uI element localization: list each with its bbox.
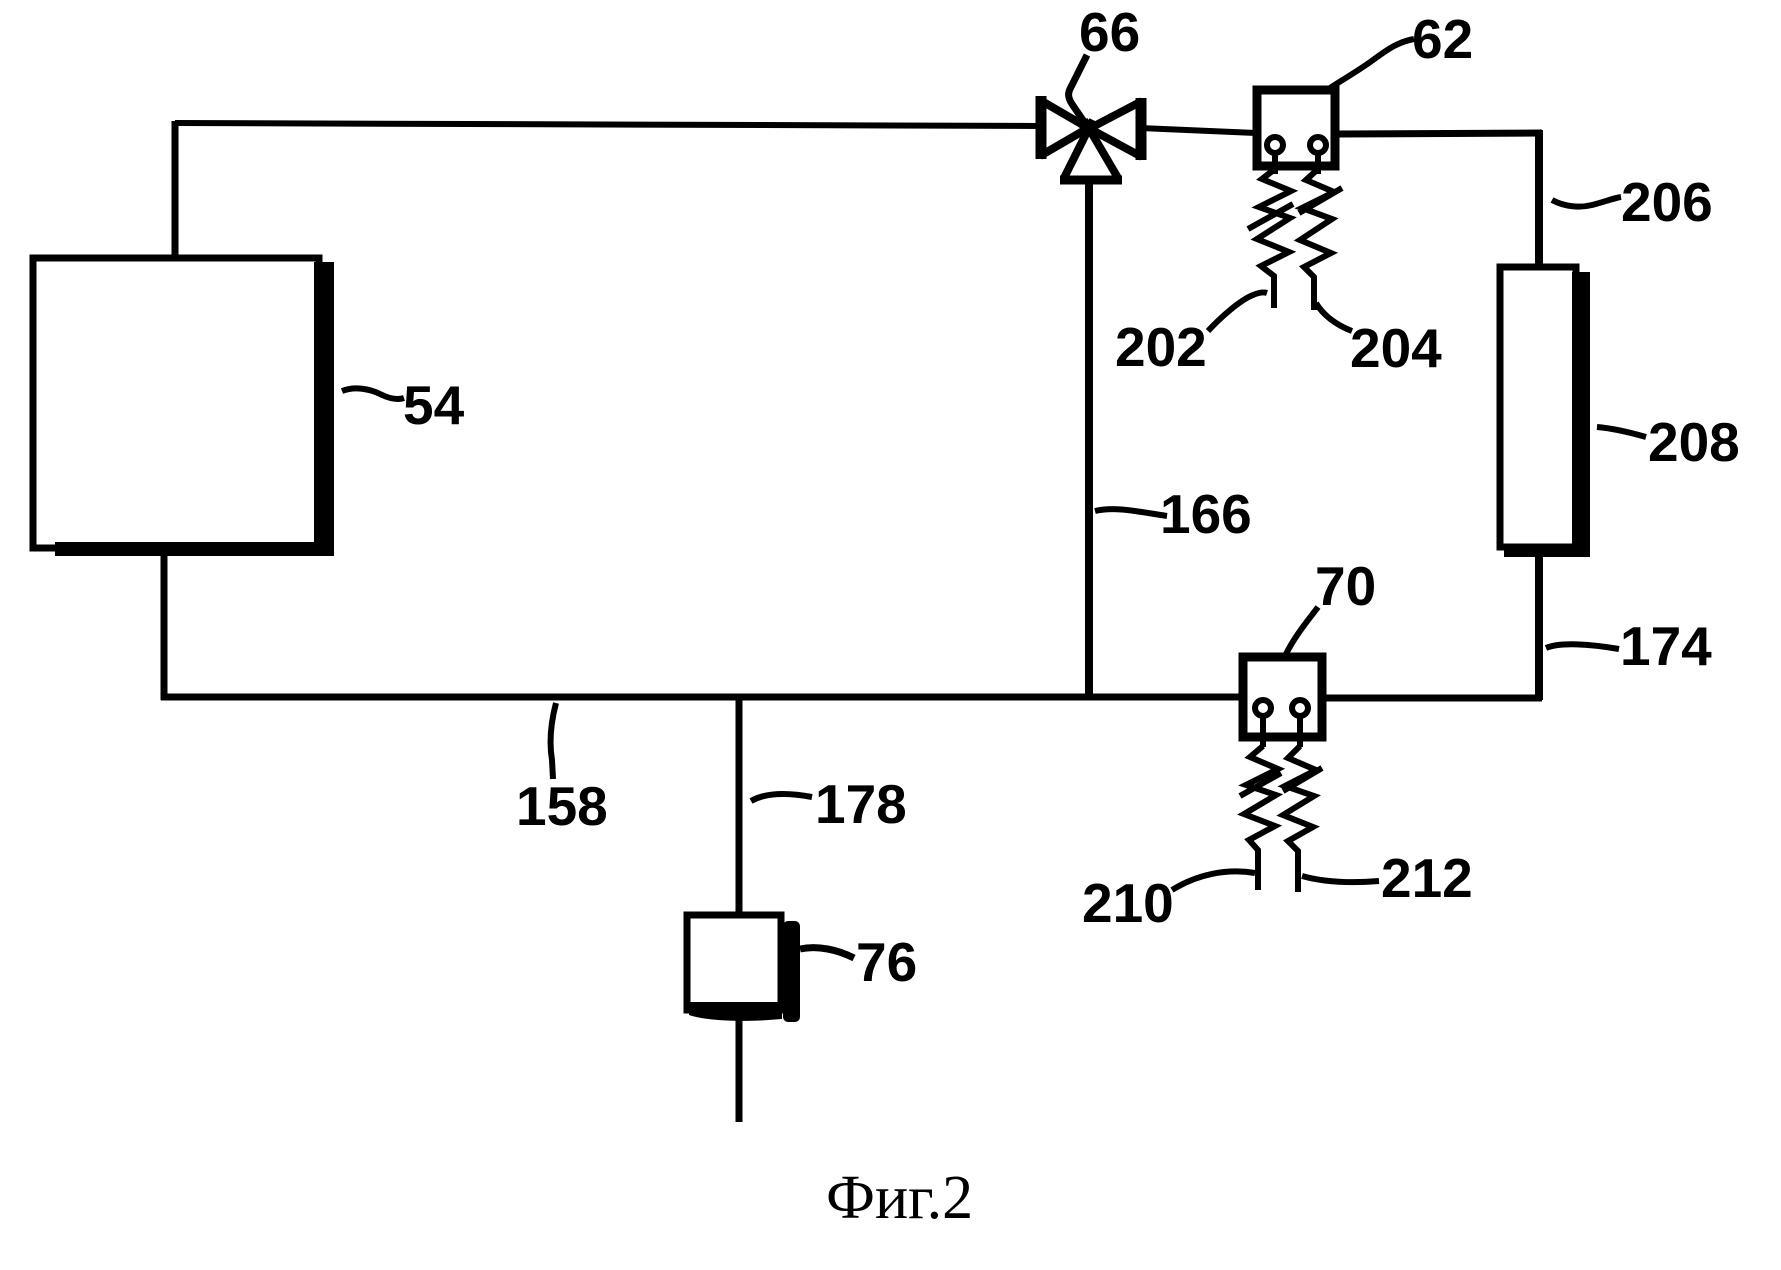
svg-text:66: 66 xyxy=(1079,1,1140,63)
svg-text:204: 204 xyxy=(1350,317,1442,379)
label 202 leader xyxy=(1208,292,1267,331)
box 62 (solenoid) xyxy=(1257,90,1335,166)
label 166 leader xyxy=(1095,509,1167,516)
svg-text:Фиг.2: Фиг.2 xyxy=(826,1164,973,1232)
svg-text:166: 166 xyxy=(1160,483,1252,545)
box 208 (accumulator) xyxy=(1500,267,1590,557)
label 206 leader xyxy=(1552,197,1621,207)
svg-text:62: 62 xyxy=(1412,8,1473,70)
svg-text:174: 174 xyxy=(1620,615,1712,677)
pin circle right of 62 xyxy=(1310,137,1326,153)
svg-text:76: 76 xyxy=(856,931,917,993)
label 210 leader xyxy=(1172,871,1255,890)
capillary 210 zigzag xyxy=(1244,746,1278,890)
capillary 202 crossing dash xyxy=(1248,204,1293,229)
capillary 202 zigzag xyxy=(1257,169,1291,308)
svg-text:178: 178 xyxy=(815,773,907,835)
capillary 210 crossing dash xyxy=(1240,773,1281,796)
label 204 leader xyxy=(1316,303,1352,331)
wire top right segment xyxy=(1336,133,1542,134)
capillary 204 zigzag xyxy=(1300,169,1334,310)
wire from box 54 bottom xyxy=(161,548,168,700)
pin stem right 62 xyxy=(1315,153,1321,174)
wire top mid segment valve to box 62 xyxy=(1140,128,1256,133)
wire 166 vertical xyxy=(1085,176,1093,700)
wire 178 vertical xyxy=(736,699,743,916)
pin circle left of 70 xyxy=(1255,700,1271,716)
svg-text:212: 212 xyxy=(1381,847,1473,909)
label 54 leader xyxy=(342,388,404,399)
pin stem left 62 xyxy=(1272,153,1278,174)
svg-text:54: 54 xyxy=(403,374,465,436)
pin stem right 70 xyxy=(1297,716,1303,747)
wire top horizontal left segment xyxy=(175,123,1040,126)
wire right vertical lower (174) xyxy=(1535,546,1543,700)
svg-text:202: 202 xyxy=(1115,316,1207,378)
box 76 (component) xyxy=(687,915,800,1022)
box 54 (component) xyxy=(33,258,334,556)
wire bottom horizontal right part xyxy=(1324,695,1542,702)
label 62 leader xyxy=(1330,39,1414,88)
pin circle right of 70 xyxy=(1292,700,1308,716)
wire top-left vertical drop to box 54 xyxy=(172,121,179,260)
pin stem left 70 xyxy=(1260,716,1266,747)
label 76 leader xyxy=(800,948,854,958)
svg-text:208: 208 xyxy=(1648,411,1740,473)
label 70 leader xyxy=(1286,607,1318,654)
svg-text:206: 206 xyxy=(1621,171,1713,233)
capillary 204 crossing dash xyxy=(1299,188,1342,213)
pin circle left of 62 xyxy=(1267,137,1283,153)
capillary 212 crossing dash xyxy=(1283,768,1322,791)
label 66 leader xyxy=(1069,55,1087,126)
wire right vertical upper (206) xyxy=(1535,130,1543,267)
label 158 leader xyxy=(551,703,556,779)
label 174 leader xyxy=(1546,644,1619,649)
wire below box 76 xyxy=(736,1013,743,1122)
box 70 (solenoid) xyxy=(1243,657,1322,737)
svg-text:70: 70 xyxy=(1315,555,1376,617)
svg-text:158: 158 xyxy=(516,775,608,837)
label 208 leader xyxy=(1597,427,1646,437)
capillary 212 zigzag xyxy=(1283,746,1316,892)
label 212 leader xyxy=(1302,876,1379,882)
valve 66 three-way xyxy=(1040,96,1142,180)
svg-text:210: 210 xyxy=(1082,872,1174,934)
wire bottom horizontal (158) left part xyxy=(161,694,1240,701)
label 178 leader xyxy=(751,794,812,801)
